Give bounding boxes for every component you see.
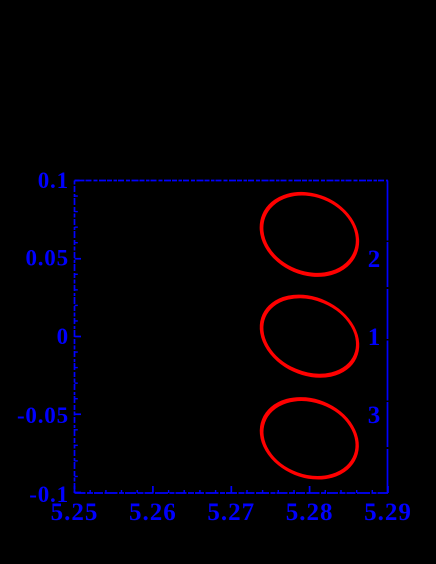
svg-text:5.27: 5.27 bbox=[207, 499, 255, 526]
ellipse contour 1 (middle) bbox=[248, 281, 372, 392]
svg-text:5.29: 5.29 bbox=[364, 499, 412, 526]
ellipse contour 3 (bottom) bbox=[249, 384, 370, 492]
ellipse contour 2 (top) bbox=[248, 179, 371, 291]
svg-text:5.25: 5.25 bbox=[51, 499, 99, 526]
svg-text:0: 0 bbox=[57, 324, 69, 349]
y minor ticks bbox=[75, 196, 78, 476]
axis frame left bbox=[74, 181, 76, 494]
svg-text:5.26: 5.26 bbox=[129, 499, 177, 526]
x major ticks bbox=[75, 486, 389, 493]
svg-text:0.1: 0.1 bbox=[38, 168, 69, 193]
axis frame top bbox=[75, 180, 389, 182]
axis frame bottom bbox=[75, 492, 389, 494]
y major ticks bbox=[75, 181, 82, 493]
svg-text:0.05: 0.05 bbox=[25, 246, 68, 271]
svg-text:-0.05: -0.05 bbox=[17, 403, 69, 428]
svg-text:2: 2 bbox=[368, 246, 381, 273]
axis frame right bbox=[387, 181, 389, 494]
svg-text:3: 3 bbox=[368, 402, 381, 429]
svg-text:5.28: 5.28 bbox=[286, 499, 334, 526]
svg-text:1: 1 bbox=[368, 324, 381, 351]
x minor ticks bbox=[90, 490, 372, 493]
